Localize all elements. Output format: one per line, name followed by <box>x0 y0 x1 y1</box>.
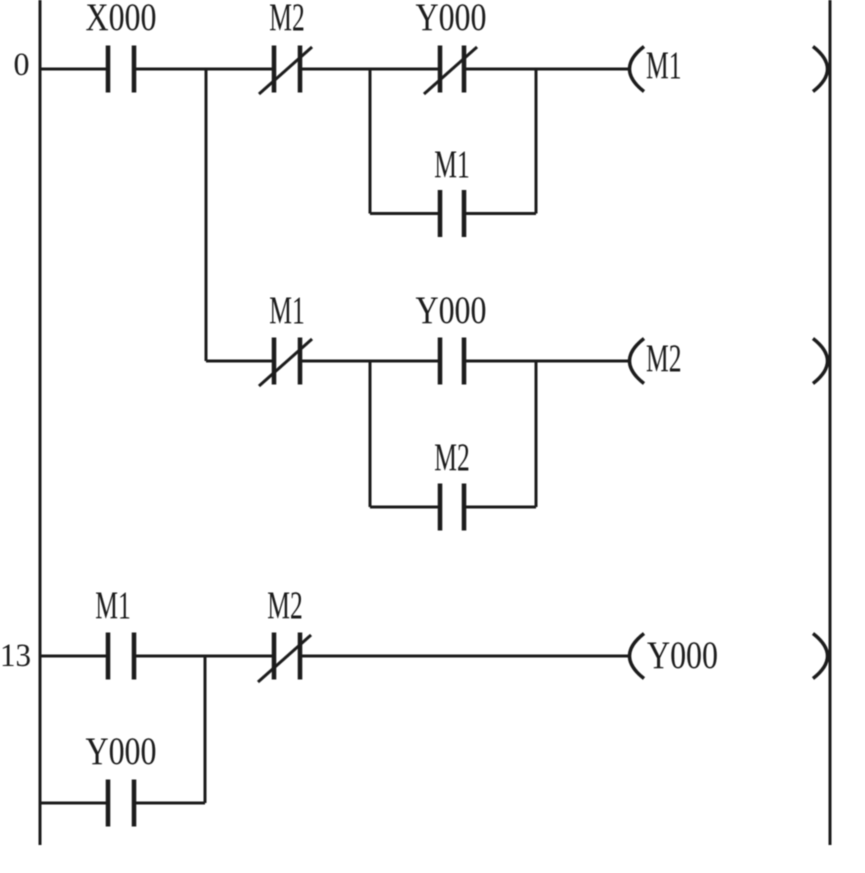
svg-text:M2: M2 <box>267 584 303 627</box>
svg-text:Y000: Y000 <box>647 634 718 677</box>
svg-text:X000: X000 <box>86 0 157 39</box>
svg-text:M1: M1 <box>434 143 470 186</box>
svg-text:Y000: Y000 <box>86 730 157 773</box>
svg-text:Y000: Y000 <box>416 0 487 39</box>
svg-text:13: 13 <box>0 638 31 674</box>
svg-text:M1: M1 <box>269 289 305 332</box>
svg-text:M1: M1 <box>646 44 682 87</box>
svg-text:M1: M1 <box>95 584 131 627</box>
svg-text:M2: M2 <box>269 0 305 39</box>
svg-text:Y000: Y000 <box>416 289 487 332</box>
svg-text:0: 0 <box>14 47 30 83</box>
svg-text:M2: M2 <box>646 337 682 380</box>
svg-text:M2: M2 <box>434 436 470 479</box>
